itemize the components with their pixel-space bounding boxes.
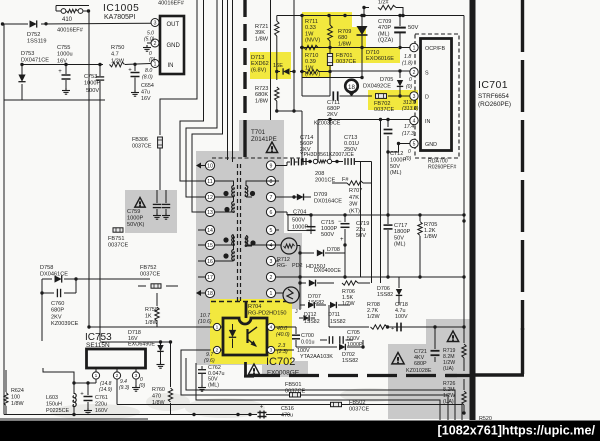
- resistor R712 circle: [277, 238, 303, 269]
- wire pin2 row: [279, 276, 300, 278]
- svg-text:0.01u: 0.01u: [301, 340, 315, 346]
- resistor R707: [332, 181, 372, 215]
- svg-text:0.33: 0.33: [305, 25, 316, 31]
- transformer pin 18: [205, 288, 214, 297]
- svg-text:680P: 680P: [414, 361, 427, 367]
- wire rail3: [300, 45, 345, 49]
- svg-text:R723: R723: [255, 86, 268, 92]
- resistor R719: [443, 327, 466, 372]
- svg-text:0037CE: 0037CE: [349, 407, 369, 413]
- label R520: [479, 416, 492, 422]
- label C713: [344, 135, 359, 153]
- wire x330 lower: [328, 70, 331, 93]
- svg-text:+: +: [391, 326, 394, 332]
- winding S1: [245, 181, 275, 197]
- svg-text:R710: R710: [305, 53, 318, 59]
- transformer pin 10: [205, 161, 214, 170]
- transformer pin 11: [198, 176, 215, 185]
- svg-text:D708: D708: [327, 247, 340, 253]
- IC702 corner: [244, 362, 254, 377]
- svg-text:1/2W: 1/2W: [111, 58, 125, 64]
- capacitor C759a: [153, 190, 161, 219]
- svg-text:IC1005: IC1005: [103, 3, 139, 14]
- svg-text:D758: D758: [40, 265, 53, 271]
- wire vertical x294 top: [293, 0, 295, 47]
- voltage note pin4: [402, 124, 416, 137]
- svg-text:C755: C755: [57, 45, 70, 51]
- resistor R711: [305, 16, 332, 48]
- label FB702: [374, 101, 394, 113]
- transformer pin 16: [198, 256, 215, 265]
- ferrite bead FB501: [285, 382, 305, 397]
- svg-text:1/8W: 1/8W: [255, 98, 269, 104]
- label IC702: [266, 356, 300, 377]
- thick dashed horizontal line: [250, 374, 470, 377]
- svg-text:3: 3: [270, 259, 273, 265]
- svg-text:(0): (0): [149, 57, 155, 63]
- svg-text:C761: C761: [95, 395, 108, 401]
- svg-text:1SS82: 1SS82: [304, 319, 320, 325]
- opto pin 4: [267, 323, 296, 330]
- svg-text:DX0471CE: DX0471CE: [21, 58, 49, 64]
- svg-text:C516: C516: [281, 406, 294, 412]
- pin 2 IC753: [113, 368, 120, 405]
- transformer shield stub: [243, 120, 246, 157]
- ferrite bead FB502: [331, 400, 370, 413]
- svg-text:11: 11: [207, 179, 212, 185]
- svg-text:C654: C654: [141, 83, 154, 89]
- IC701 dashed outline: [415, 34, 459, 158]
- resistor R708: [367, 302, 388, 329]
- wire bundle b4: [117, 405, 462, 421]
- capacitor C654: [128, 64, 154, 102]
- svg-text:FB501: FB501: [285, 382, 301, 388]
- IC701 pin2: [410, 68, 429, 77]
- voltage note pin1: [402, 54, 413, 67]
- svg-text:40016EF#: 40016EF#: [57, 28, 84, 34]
- resistor R750: [110, 45, 125, 67]
- svg-text:2: 2: [216, 348, 219, 354]
- shaded region IC702 label: [262, 361, 308, 377]
- wire left col: [5, 370, 7, 383]
- svg-text:47u: 47u: [141, 90, 150, 96]
- winding P1: [215, 181, 235, 197]
- svg-text:(RO260PE): (RO260PE): [478, 101, 511, 108]
- voltage note opto4: [276, 326, 290, 338]
- fuse 410: [61, 9, 83, 23]
- label IC701 right: [478, 79, 511, 108]
- pin 3 OUT: [151, 19, 159, 27]
- svg-text:EXD62: EXD62: [251, 61, 269, 67]
- winding P3: [215, 235, 235, 261]
- voltage note opto in: [198, 313, 212, 325]
- voltage note 8.0: [142, 68, 153, 81]
- capacitor C760: [40, 279, 78, 341]
- wire pin3 row: [352, 94, 410, 99]
- svg-text:16V: 16V: [57, 58, 67, 64]
- svg-text:1000P: 1000P: [292, 224, 308, 230]
- svg-text:FB306: FB306: [132, 137, 148, 143]
- svg-text:17.4: 17.4: [404, 124, 414, 130]
- wire top rail2: [300, 14, 464, 17]
- shaded region C759 block: [125, 190, 177, 233]
- svg-text:C709: C709: [378, 19, 391, 25]
- svg-text:47K: 47K: [349, 195, 359, 201]
- svg-text:S: S: [425, 71, 429, 77]
- label 40016EFW top: [158, 1, 185, 7]
- svg-text:470P: 470P: [378, 25, 391, 31]
- thick vertical bus bar: [470, 0, 476, 420]
- IC701 box: [421, 39, 452, 151]
- capacitor C709: [378, 16, 418, 50]
- svg-text:(17.3): (17.3): [402, 131, 416, 137]
- capacitor C715: [321, 215, 350, 247]
- label T701: [251, 129, 277, 143]
- svg-text:50V: 50V: [390, 164, 400, 170]
- diode D705: [363, 71, 403, 98]
- svg-text:1W: 1W: [305, 31, 314, 37]
- pin 10 arrow: [196, 163, 205, 169]
- svg-text:2001CE: 2001CE: [315, 178, 335, 184]
- wire y162 caps row: [302, 158, 372, 165]
- svg-text:(ML): (ML): [390, 170, 402, 176]
- svg-text:D705: D705: [380, 77, 393, 83]
- voltage note D705: [406, 77, 412, 90]
- label 100V YTA: [297, 348, 333, 360]
- wire pin4 to R712: [276, 244, 281, 246]
- wire right drain: [463, 16, 465, 216]
- shaded region transformer T701 area: [196, 120, 302, 365]
- svg-text:680K: 680K: [255, 92, 268, 98]
- label 208 fuse: [315, 171, 349, 184]
- label C759: [127, 209, 145, 228]
- svg-text:410: 410: [62, 17, 73, 23]
- capacitor C762: [198, 365, 225, 391]
- svg-text:1K: 1K: [145, 314, 152, 320]
- pin 2 GND: [151, 39, 159, 47]
- svg-text:+: +: [128, 68, 132, 74]
- pin 1 IN: [151, 60, 159, 68]
- ferrite bead FB752: [138, 265, 178, 288]
- svg-text:(6.8V): (6.8V): [251, 67, 266, 73]
- voltage note 0: [149, 51, 155, 63]
- diode D709: [292, 192, 342, 205]
- opto pin 1: [207, 323, 223, 330]
- svg-text:KA7805PI: KA7805PI: [104, 14, 136, 21]
- svg-text:10: 10: [207, 163, 213, 169]
- svg-text:(5.0): (5.0): [144, 37, 155, 43]
- svg-text:8.0: 8.0: [145, 68, 152, 74]
- transformer pin 4: [266, 240, 279, 249]
- svg-text:1/2W: 1/2W: [342, 301, 355, 307]
- diode D753: [18, 51, 49, 82]
- pin 1 IC753: [92, 368, 99, 383]
- svg-text:9: 9: [270, 163, 273, 169]
- pin 18 arrow: [196, 290, 205, 296]
- svg-text:6: 6: [270, 210, 273, 216]
- svg-text:EXO6016E: EXO6016E: [366, 56, 394, 62]
- svg-text:250V: 250V: [344, 147, 357, 153]
- wire bundle line 4: [192, 0, 223, 212]
- svg-text:IC701: IC701: [478, 79, 508, 91]
- transformer pin 5: [266, 225, 279, 234]
- capacitor C721: [406, 327, 440, 374]
- svg-text:IC702: IC702: [266, 356, 295, 368]
- svg-text:DX0164CE: DX0164CE: [314, 199, 342, 205]
- wire pin4 row: [318, 118, 410, 162]
- svg-text:D712: D712: [304, 312, 317, 318]
- resistor R710 label: [305, 53, 320, 78]
- svg-text:5: 5: [413, 141, 416, 147]
- svg-text:1SS119: 1SS119: [27, 39, 47, 45]
- diode D706: [377, 277, 402, 305]
- svg-text:16: 16: [207, 259, 213, 265]
- svg-text:1/8W: 1/8W: [338, 41, 352, 47]
- svg-text:500V: 500V: [292, 218, 305, 224]
- svg-text:+: +: [58, 69, 62, 75]
- svg-text:1SS82: 1SS82: [377, 292, 393, 298]
- opto pin 2: [213, 346, 223, 353]
- transformer pin 17: [198, 272, 215, 281]
- svg-text:(2.3): (2.3): [277, 349, 288, 355]
- svg-text:(UA): (UA): [443, 366, 454, 372]
- wire pin6 row: [279, 212, 287, 215]
- svg-text:1000P: 1000P: [390, 157, 406, 163]
- svg-text:100V: 100V: [395, 314, 408, 320]
- resistor R723: [255, 86, 279, 113]
- svg-text:R0260PEF#: R0260PEF#: [428, 165, 456, 171]
- svg-text:F#: F#: [342, 177, 349, 183]
- wire pin7 row: [279, 196, 310, 198]
- wire left loop: [4, 24, 105, 100]
- svg-text:FB701: FB701: [336, 53, 352, 59]
- diode D718: [128, 330, 165, 368]
- diode D752: [27, 20, 47, 44]
- capacitor C761: [74, 381, 108, 414]
- capacitor C717: [384, 215, 411, 277]
- watermark bar: [0, 421, 600, 441]
- inductor L603: [43, 368, 76, 415]
- svg-text:R624: R624: [11, 388, 24, 394]
- wire y277 rail: [297, 246, 466, 311]
- svg-text:1/8W: 1/8W: [424, 234, 438, 240]
- svg-text:(10.6): (10.6): [198, 319, 212, 325]
- svg-text:0: 0: [149, 51, 152, 57]
- wire bundle line 1: [160, 0, 197, 190]
- svg-text:16E: 16E: [273, 63, 283, 69]
- svg-text:0037CE: 0037CE: [132, 144, 152, 150]
- svg-text:5: 5: [270, 228, 273, 234]
- svg-text:GND: GND: [167, 43, 181, 49]
- svg-text:1SS82: 1SS82: [342, 358, 358, 364]
- svg-text:R711: R711: [305, 19, 318, 25]
- wire pin2 row IC701: [330, 69, 410, 72]
- svg-text:PD2: PD2: [292, 263, 303, 269]
- wire pin1 to R713: [276, 292, 283, 294]
- svg-text:(UA): (UA): [443, 399, 454, 405]
- IC701 pin5: [410, 139, 437, 148]
- svg-text:OUT: OUT: [167, 22, 180, 28]
- svg-text:150uH: 150uH: [46, 402, 62, 408]
- label C704: [288, 210, 311, 231]
- winding S2: [245, 236, 275, 247]
- svg-text:1/2#: 1/2#: [378, 0, 389, 6]
- svg-text:FB502: FB502: [349, 400, 365, 406]
- svg-text:(0): (0): [405, 156, 411, 162]
- svg-text:50V: 50V: [408, 25, 418, 31]
- regulator IC753 box: [87, 349, 146, 368]
- ferrite bead FB751: [108, 228, 128, 249]
- svg-text:C700: C700: [301, 333, 314, 339]
- svg-text:+: +: [260, 405, 264, 411]
- svg-text:220u: 220u: [95, 402, 107, 408]
- label 40016EFW: [57, 28, 84, 34]
- opto transistor: [248, 327, 258, 347]
- resistor R705: [418, 215, 438, 277]
- svg-text:1000P: 1000P: [84, 81, 100, 87]
- capacitor C755: [57, 45, 73, 94]
- svg-text:2: 2: [116, 373, 119, 379]
- svg-text:1: 1: [95, 373, 98, 379]
- svg-text:1: 1: [270, 291, 273, 297]
- label IC753: [85, 332, 112, 349]
- svg-text:2: 2: [270, 275, 273, 281]
- yellow highlight D713: [250, 52, 291, 79]
- svg-text:1.8: 1.8: [404, 54, 411, 60]
- label C714: [300, 135, 354, 158]
- wire bundle b1: [186, 358, 455, 420]
- svg-text:(0): (0): [139, 383, 145, 389]
- svg-text:2KV: 2KV: [51, 314, 62, 320]
- svg-text:0: 0: [408, 149, 411, 155]
- opto LED: [229, 324, 236, 348]
- wire pin5 row: [388, 142, 410, 152]
- resistor R758: [145, 293, 159, 327]
- svg-text:12: 12: [207, 195, 213, 201]
- svg-text:4.7: 4.7: [111, 52, 119, 58]
- thick vertical line right lower solid: [521, 328, 524, 374]
- svg-text:160V: 160V: [95, 408, 108, 414]
- diode D713 zener: [251, 47, 296, 111]
- svg-text:1000u: 1000u: [57, 52, 73, 58]
- svg-text:STRF6654: STRF6654: [478, 93, 509, 100]
- svg-text:(8.0): (8.0): [142, 75, 153, 81]
- svg-text:KZ0039CE: KZ0039CE: [314, 121, 341, 127]
- wire main top rail: [1, 22, 152, 26]
- wire x362 mid: [361, 48, 363, 78]
- svg-text:DX0461CE: DX0461CE: [40, 272, 68, 278]
- svg-text:13: 13: [207, 210, 213, 216]
- svg-text:680: 680: [338, 35, 347, 41]
- warning triangle T701: [266, 142, 277, 153]
- wire vertical x270: [270, 0, 272, 120]
- transformer pin 15: [198, 240, 215, 249]
- svg-text:L603: L603: [46, 395, 58, 401]
- resistor R709 label: [338, 29, 352, 47]
- svg-text:4: 4: [270, 325, 273, 331]
- transformer pin 7: [266, 192, 279, 201]
- svg-text:50V: 50V: [394, 235, 404, 241]
- svg-text:3: 3: [154, 20, 157, 26]
- svg-text:0037CE: 0037CE: [140, 272, 160, 278]
- resistor R721: [255, 16, 302, 65]
- capacitor C719: [338, 219, 369, 277]
- transformer pin 9: [266, 161, 279, 170]
- svg-text:DX0492CE: DX0492CE: [363, 84, 391, 90]
- wire lower rail: [20, 63, 136, 67]
- optocoupler R704 box: [223, 318, 267, 355]
- optocoupler R704 labels: [211, 302, 291, 319]
- svg-text:GND: GND: [425, 142, 437, 148]
- wire top fuse branch: [56, 6, 90, 13]
- voltage notes IC753 pins: [99, 377, 145, 393]
- svg-text:0: 0: [409, 77, 412, 83]
- warning triangle C759: [135, 198, 145, 208]
- svg-text:R721: R721: [255, 24, 268, 30]
- scan shading: [50, 388, 400, 420]
- svg-text:4: 4: [270, 243, 273, 249]
- label RDA700: [428, 159, 456, 171]
- diode D712: [300, 302, 326, 325]
- shaded region C721 R719 R726 block: [388, 319, 471, 419]
- wire left col x302: [300, 16, 303, 97]
- resistor R726: [443, 379, 466, 415]
- IC701 pin3: [410, 92, 429, 101]
- wire x294 to C714 col: [277, 109, 302, 162]
- wire y327 rail: [329, 305, 466, 329]
- svg-text:KZ01028E: KZ01028E: [406, 368, 432, 374]
- wire bundle line 6: [232, 0, 234, 162]
- svg-text:P0225CE: P0225CE: [46, 408, 69, 414]
- svg-text:(313.0): (313.0): [402, 106, 419, 112]
- svg-text:(ML): (ML): [378, 31, 390, 37]
- svg-text:FX0008GE: FX0008GE: [267, 370, 300, 377]
- svg-text:D: D: [425, 95, 429, 101]
- svg-text:2KV: 2KV: [327, 112, 338, 118]
- voltage note opto2: [204, 352, 215, 364]
- svg-text:D711: D711: [328, 312, 340, 318]
- capacitor C700: [292, 327, 315, 347]
- svg-text:0037CE: 0037CE: [336, 59, 356, 65]
- svg-text:IN: IN: [425, 119, 430, 125]
- svg-text:1/2W: 1/2W: [367, 314, 380, 320]
- resistor R624: [4, 383, 24, 415]
- transformer pin 2: [266, 272, 279, 281]
- svg-text:T701: T701: [251, 129, 266, 136]
- svg-text:680P: 680P: [51, 308, 64, 314]
- capacitor C711: [302, 91, 352, 126]
- connector circle 18: [330, 80, 358, 97]
- diode D702: [296, 340, 365, 364]
- svg-text:14: 14: [207, 228, 213, 234]
- svg-text:17: 17: [207, 275, 213, 281]
- svg-text:FB752: FB752: [140, 265, 156, 271]
- pin 3 IC753: [132, 368, 140, 391]
- capacitor C704: [307, 215, 316, 234]
- transformer pin 13: [198, 207, 215, 216]
- warning triangle R719: [447, 331, 458, 342]
- wire 464 lower: [462, 215, 465, 327]
- resistor R760: [152, 342, 173, 415]
- thick dashed vertical line right: [521, 0, 524, 330]
- wire rail yellow bottom: [345, 47, 398, 49]
- svg-text:D752: D752: [27, 32, 40, 38]
- svg-text:D753: D753: [21, 51, 34, 57]
- capacitor C705: [320, 330, 363, 348]
- svg-text:470u: 470u: [281, 413, 293, 419]
- label IC1005: [103, 3, 139, 21]
- warning triangle C721: [392, 353, 404, 364]
